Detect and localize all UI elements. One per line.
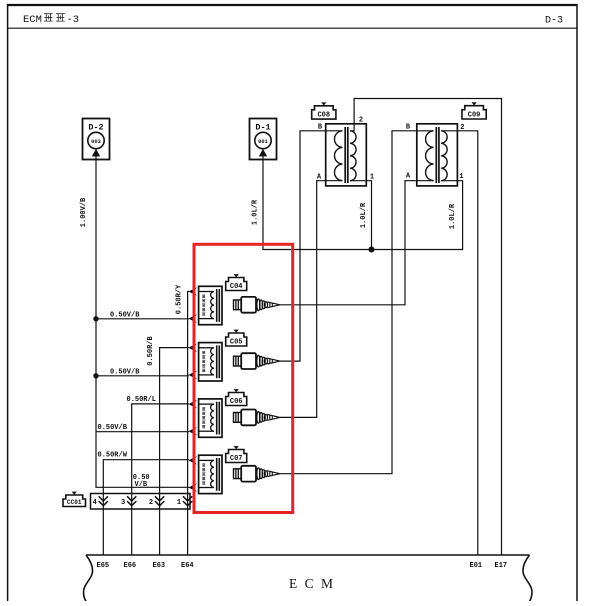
injector C04 pictogram [234,297,281,313]
injector C07 coil box (cyl 4) [199,455,222,493]
svg-text:E64: E64 [181,562,194,570]
svg-text:0.50R/W: 0.50R/W [98,452,128,460]
svg-text:E63: E63 [153,562,166,570]
svg-text:1.0L/R: 1.0L/R [449,203,457,229]
CC01 pin 1 chevron [183,496,192,505]
svg-text:3: 3 [121,499,125,507]
injector C05 pin 2 arrow [188,371,197,380]
svg-text:V/B: V/B [135,481,148,489]
title text ECM system-3 [23,14,79,26]
connector CC01 [63,495,86,507]
injector C05 pictogram [234,353,281,369]
CC01 pin row box [91,494,191,510]
CC01 pin 2 chevron [155,496,164,505]
svg-text:E66: E66 [124,562,137,570]
CC01 pin 3 chevron [127,496,136,505]
svg-text:1.0L/R: 1.0L/R [252,199,260,225]
svg-text:0.50R/B: 0.50R/B [147,335,155,365]
svg-text:0.50V/B: 0.50V/B [110,312,140,320]
svg-text:1: 1 [177,499,181,507]
injector C06 coil box (cyl 3) [199,399,222,437]
svg-text:CC01: CC01 [67,499,82,506]
injector C06 pictogram [234,410,281,426]
wire C09 pin 1 / C08 pin 1 common to D-1 (1.0L/R) [263,156,463,250]
svg-text:C09: C09 [468,111,481,119]
svg-text:1: 1 [459,173,463,181]
svg-text:C04: C04 [230,283,243,291]
injector C07 pin 1 arrow [188,456,197,465]
red highlight rectangle around injectors [194,244,293,512]
injector C05 coil box (cyl 2) [199,343,222,381]
svg-text:C08: C08 [317,112,330,120]
svg-text:0.50R/L: 0.50R/L [127,396,156,404]
svg-text:ECM: ECM [23,14,42,26]
ECM right brace [523,555,532,602]
junction node at bus/injector1 [93,316,98,321]
svg-text:003: 003 [91,139,101,145]
svg-text:001: 001 [258,139,268,145]
wire tap to injector2 bottom (0.50V/B) [96,375,189,377]
junction node C08 pin1 / D-1 line [369,247,375,253]
svg-text:0.50V/B: 0.50V/B [110,369,140,377]
connector label C05 [226,333,247,346]
connector label C04 [226,278,247,291]
wire C08 pin 2 to ECM E17 (1.0L/R) [350,99,502,556]
wire injector driver to CC01 pin 2 and ECM [160,348,189,555]
border frame right [576,4,578,601]
svg-text:4: 4 [93,499,97,507]
junction node at bus/injector2 [93,373,98,378]
connector label C07 [226,450,247,463]
injector C06 pin 2 arrow [188,427,197,436]
wire tap to injector3 bottom (0.50V/B) [96,431,189,433]
svg-text:E65: E65 [97,562,110,570]
ignition coil transformer C08 [326,124,367,186]
wire C09 pin 2 to ECM E01 (1.0L/R) [441,131,478,555]
svg-text:0.50V/B: 0.50V/B [98,424,128,432]
svg-text:-3: -3 [67,14,80,26]
ignition coil transformer C09 [417,124,458,186]
wire C07 injector tip to C09 pin B [280,131,434,474]
connector label C08 [312,106,336,119]
wire injector driver to CC01 pin 4 and ECM [103,460,189,555]
ECM top edge [86,554,530,556]
svg-text:2: 2 [149,499,153,507]
injector C07 pictogram [234,466,281,482]
wire bus from D-2 (1.00V/B) down then to injector 4 bottom pin [96,156,189,487]
injector C04 pin 1 arrow [188,287,197,296]
svg-text:1.00V/B: 1.00V/B [80,197,88,227]
svg-text:C05: C05 [230,338,243,346]
svg-text:D-2: D-2 [88,123,103,133]
connector D-2 [83,119,110,160]
wire injector driver to CC01 pin 3 and ECM [132,404,189,555]
title separator line [7,27,578,29]
wire injector driver to CC01 pin 1 and ECM [188,292,189,556]
wire C08 pin 1 drop [350,181,372,250]
svg-text:1.0L/R: 1.0L/R [360,202,368,228]
connector label C09 [462,106,486,119]
injector C04 coil box (cyl 1) [199,286,222,324]
svg-text:D-3: D-3 [545,16,563,27]
border frame top [7,4,578,6]
injector C05 pin 1 arrow [188,344,197,353]
svg-text:C07: C07 [230,455,243,463]
wire C05 injector tip to C08 pin B [280,131,343,361]
injector C06 pin 1 arrow [188,400,197,409]
svg-text:D-1: D-1 [255,123,270,133]
connector D-1 [250,119,277,160]
wire C04 injector tip to C09 pin A [280,181,434,305]
svg-text:2: 2 [359,116,363,124]
injector C07 pin 2 arrow [188,483,197,492]
svg-text:E C M: E C M [289,576,335,591]
border frame left [7,4,9,601]
injector C04 pin 2 arrow [188,314,197,323]
svg-text:0.50R/Y: 0.50R/Y [176,284,184,314]
connector label C06 [226,393,247,406]
CC01 pin 4 chevron [99,496,108,505]
svg-text:E17: E17 [495,562,508,570]
wire C06 injector tip to C08 pin A [280,181,343,418]
wire tap to injector1 bottom (0.50V/B) [96,318,189,320]
ECM left brace [84,555,93,602]
svg-text:E01: E01 [470,562,483,570]
svg-text:C06: C06 [230,398,243,406]
